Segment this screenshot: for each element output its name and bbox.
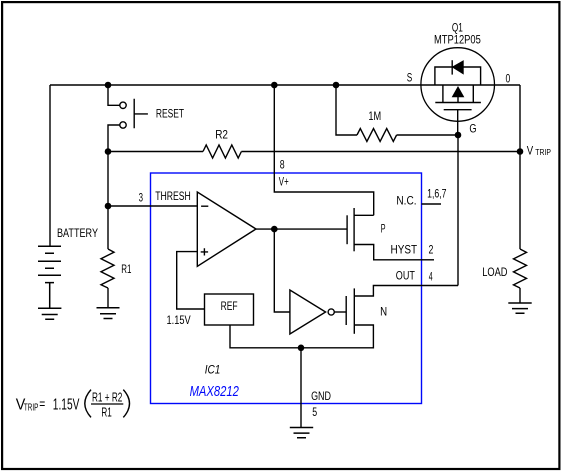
svg-text:1M: 1M [368, 109, 381, 123]
wire: gate column down to OUT stub [457, 135, 459, 286]
wire: THRESH pin 3 lead [108, 205, 197, 207]
svg-text:0: 0 [506, 71, 511, 85]
svg-text:1.15V: 1.15V [53, 396, 80, 413]
wire: reset switch lower lead and left column down to R1 [108, 125, 120, 249]
svg-text:BATTERY: BATTERY [57, 226, 98, 240]
svg-text:RESET: RESET [156, 106, 185, 120]
resistor 1M [357, 129, 397, 142]
svg-text:GND: GND [311, 389, 331, 403]
ground below R1 [97, 308, 120, 319]
wire: N.C. pin 1,6,7 stub [422, 203, 442, 205]
svg-text:S: S [407, 71, 413, 85]
svg-text:MAX8212: MAX8212 [190, 383, 240, 400]
node: VTRIP junction [517, 148, 524, 155]
ground below LOAD [508, 303, 531, 313]
svg-text:TRIP: TRIP [24, 402, 38, 414]
svg-text:8: 8 [280, 157, 285, 171]
Q1 body diode cathode bar [451, 60, 453, 74]
node: gate G junction [455, 132, 462, 139]
inverter U1B [290, 290, 326, 334]
svg-text:5: 5 [312, 405, 317, 419]
node: internal ground / GND pin junction [298, 345, 305, 352]
Q1 substrate arrow (up) [453, 87, 464, 97]
transistor N-channel FET (internal) gate bar [345, 296, 347, 325]
svg-text:TRIP: TRIP [535, 148, 551, 157]
svg-text:V+: V+ [279, 175, 289, 189]
svg-text:OUT: OUT [396, 269, 416, 283]
resistor R1 [101, 249, 114, 288]
transistor N-FET channel bar [353, 288, 355, 333]
svg-text:1,6,7: 1,6,7 [427, 187, 447, 201]
node: R2 line left junction [105, 148, 112, 155]
svg-text:N.C.: N.C. [396, 194, 416, 208]
wire: 1M right lead to gate node [397, 134, 458, 136]
inverter bubble [328, 309, 334, 315]
svg-text:4: 4 [429, 270, 433, 284]
Q1 body diode loop [435, 67, 481, 85]
wire: reset switch upper lead [108, 85, 120, 105]
comparator minus input mark [201, 205, 208, 207]
ground below GND pin [290, 428, 313, 438]
wire: OUT pin 4 stub to gate column [422, 285, 459, 287]
wire: P-FET bottom arm to HYST pin [354, 245, 421, 260]
Q1 gate plate [444, 109, 472, 111]
reference block REF [205, 294, 254, 325]
svg-text:P: P [381, 221, 386, 235]
wire: VTRIP down to LOAD [519, 152, 521, 250]
IC U1 boundary box (MAX8212) [151, 173, 422, 404]
transistor Q1 MTP12P05 body circle [421, 48, 495, 122]
svg-text:REF: REF [221, 299, 238, 313]
svg-text:2: 2 [429, 243, 434, 257]
svg-text:=: = [39, 396, 45, 412]
Q1 channel structure [435, 85, 481, 103]
node: top rail / 1M branch junction [333, 82, 340, 89]
wire: inverter input column from comparator output [274, 229, 290, 312]
resistor R2 [203, 145, 241, 158]
wire: R1 bottom lead [107, 288, 109, 308]
wire: R2 right lead across to VTRIP node [241, 151, 519, 153]
svg-text:IC1: IC1 [205, 363, 221, 377]
wire: comparator plus input to REF [177, 252, 205, 309]
svg-text:3: 3 [139, 190, 144, 204]
wire: HYST pin 2 stub [422, 259, 435, 261]
node: top rail / reset column junction [105, 82, 112, 89]
wire: N-FET bottom arm to internal ground rail and REF bottom [230, 325, 373, 348]
wire: Q1 gate stem [457, 110, 459, 135]
node: top rail / pin8 V+ junction [271, 82, 278, 89]
ground below battery [38, 308, 61, 319]
svg-text:R1 + R2: R1 + R2 [92, 391, 122, 405]
wire: top rail from left rail to Q1 drain corner [50, 84, 520, 86]
transistor P-FET channel bar [353, 208, 355, 251]
wire: GND pin 5 lead [300, 348, 302, 428]
wire: bubble to N-FET gate [334, 311, 346, 313]
comparator U1A [197, 192, 256, 266]
node: comparator output junction [271, 226, 278, 233]
formula VTRIP = 1.15V (R1+R2)/R1 [16, 390, 130, 420]
svg-text:R2: R2 [215, 128, 228, 142]
resistor LOAD [514, 249, 527, 288]
wire: LOAD bottom lead [519, 288, 521, 303]
svg-text:R1: R1 [101, 406, 111, 420]
wire: R2 left lead [108, 151, 203, 153]
svg-text:R1: R1 [121, 262, 131, 276]
svg-text:V: V [527, 146, 534, 158]
battery B1 [38, 246, 61, 308]
svg-text:MTP12P05: MTP12P05 [434, 32, 481, 46]
Q1 body diode triangle [453, 61, 464, 74]
wire: 1M branch left lead [336, 85, 357, 135]
wire: drain drop to VTRIP node [519, 85, 521, 152]
wire: comparator output to P-FET gate [256, 228, 347, 230]
svg-text:G: G [469, 122, 476, 136]
wire: P-FET top arm to V+ [354, 214, 374, 216]
svg-text:1.15V: 1.15V [167, 313, 191, 327]
wire: N-FET top arm to OUT pin [354, 286, 421, 297]
svg-text:N: N [380, 305, 387, 319]
switch S1 actuator bar [134, 99, 148, 129]
transistor P-channel FET (internal) gate bar [346, 215, 348, 244]
wire: pin 8 V+ feed from top rail into IC [274, 85, 373, 215]
svg-text:HYST: HYST [391, 243, 418, 257]
svg-text:THRESH: THRESH [155, 189, 191, 203]
svg-text:LOAD: LOAD [482, 265, 508, 279]
switch S1 RESET pushbutton contacts [120, 102, 126, 108]
node: THRESH junction [105, 203, 112, 210]
wire: left rail down to battery [49, 85, 51, 246]
comparator plus input mark [201, 248, 208, 255]
